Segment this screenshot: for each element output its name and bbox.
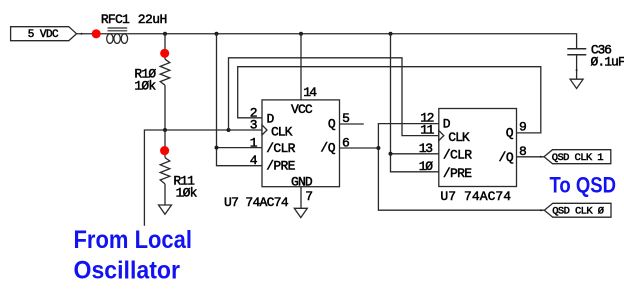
flip-flop U7A 74AC74 — [262, 100, 340, 190]
red marker dot — [92, 29, 101, 38]
junction CLK wireA — [227, 128, 231, 132]
junction /Q1 node — [376, 146, 380, 150]
svg-text:4: 4 — [250, 153, 258, 168]
wire R11 top — [164, 130, 166, 158]
svg-text:U7 74AC74: U7 74AC74 — [224, 195, 289, 210]
wire 5VDC flag to inductor — [77, 33, 108, 35]
svg-text:6: 6 — [342, 135, 350, 150]
svg-text:11: 11 — [420, 123, 434, 138]
inductor RFC1 22uH — [101, 12, 167, 43]
svg-text:1Ø: 1Ø — [419, 159, 433, 174]
svg-text:13: 13 — [419, 141, 433, 156]
net flag QSD CLK 0 — [544, 203, 611, 217]
wire GND pin7 — [300, 187, 302, 209]
junction rail-FF1 pullup — [215, 32, 219, 36]
svg-text:Ø.1uF: Ø.1uF — [591, 54, 624, 69]
net flag QSD CLK 1 — [544, 150, 611, 165]
wire clock to both FF CLK pins (wire A) — [229, 58, 439, 136]
wire Q1 pin5 stub — [340, 123, 364, 125]
junction R10/R11-CLK wire — [163, 128, 167, 132]
svg-text:Oscillator: Oscillator — [74, 257, 181, 285]
svg-text:5 VDC: 5 VDC — [28, 29, 59, 41]
wire R11 to ground — [164, 184, 166, 205]
junction pullup-pin1 — [215, 146, 219, 150]
wire rail to R10 — [164, 34, 166, 59]
svg-text:U7 74AC74: U7 74AC74 — [440, 189, 511, 204]
svg-text:QSD CLK Ø: QSD CLK Ø — [552, 206, 604, 218]
svg-text:CLK: CLK — [448, 130, 470, 145]
junction rail-FF2 pullup — [389, 32, 393, 36]
resistor R11 10k — [160, 158, 197, 201]
svg-text:From Local: From Local — [74, 226, 193, 254]
wire main 5V rail to C36 — [128, 34, 577, 49]
svg-text:22uH: 22uH — [138, 12, 167, 27]
wire FF1 pullup to /PRE pin4 — [217, 34, 263, 166]
svg-text:Q: Q — [506, 125, 514, 140]
wire FF1 pullup branch to /CLR pin1 — [217, 147, 263, 149]
svg-text:RFC1: RFC1 — [101, 12, 130, 27]
wire Q2 to D1 (wire B) — [238, 67, 541, 133]
red marker dot — [160, 49, 169, 58]
svg-text:GND: GND — [291, 175, 313, 190]
wire /Q1 pin6 — [340, 147, 379, 149]
svg-text:/CLR: /CLR — [443, 148, 472, 163]
power flag 5 VDC — [11, 27, 77, 41]
resistor R10 10k — [134, 59, 169, 93]
svg-text:9: 9 — [519, 119, 527, 134]
wire end dot — [540, 156, 542, 158]
ground — [294, 208, 307, 217]
svg-text:/Q: /Q — [499, 150, 514, 165]
svg-text:VCC: VCC — [291, 102, 313, 117]
wire R10 to CLK node — [164, 85, 166, 130]
wire FF2 pullup to /PRE pin10 — [391, 34, 439, 172]
svg-text:/CLR: /CLR — [266, 141, 295, 156]
junction rail-R10 — [163, 32, 167, 36]
svg-text:/PRE: /PRE — [443, 166, 472, 181]
svg-text:/PRE: /PRE — [266, 159, 295, 174]
svg-text:/Q: /Q — [320, 141, 335, 156]
svg-text:To QSD: To QSD — [550, 172, 617, 197]
wire end dot — [540, 209, 542, 211]
red marker dot — [160, 146, 169, 155]
wire end dot — [576, 69, 578, 71]
wire /Q2 pin8 to flag — [517, 156, 545, 158]
junction rail-VCC pin14 — [299, 32, 303, 36]
svg-text:Q: Q — [328, 116, 336, 131]
wire /Q1 to D2 pin12 — [378, 124, 438, 148]
svg-text:QSD CLK 1: QSD CLK 1 — [552, 152, 604, 164]
ground — [159, 205, 172, 214]
svg-text:3: 3 — [250, 118, 258, 133]
svg-text:14: 14 — [303, 85, 317, 100]
junction pullup-pin13 — [389, 152, 393, 156]
svg-text:1Øk: 1Øk — [176, 186, 198, 201]
capacitor C36 0.1uF — [567, 43, 624, 80]
wire end dot — [81, 33, 83, 35]
svg-text:5: 5 — [342, 111, 350, 126]
svg-text:7: 7 — [305, 189, 313, 204]
flip-flop U7B 74AC74 — [439, 109, 517, 187]
svg-text:1: 1 — [250, 135, 258, 150]
svg-text:8: 8 — [519, 144, 527, 159]
wire from local oscillator to CLK pin3 — [144, 130, 262, 226]
wire /Q1 to QSD CLK 0 flag — [378, 148, 544, 210]
wire VCC pin14 — [300, 34, 302, 100]
wire FF2 pullup branch to /CLR pin13 — [391, 153, 439, 155]
svg-text:1Øk: 1Øk — [134, 79, 156, 94]
ground — [570, 79, 583, 88]
svg-text:CLK: CLK — [271, 124, 293, 139]
